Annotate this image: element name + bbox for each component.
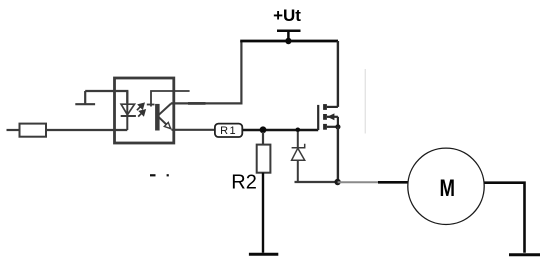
base lead stub [147,91,190,107]
svg-text:+Ut: +Ut [273,6,301,25]
wire collector to +Ut riser [171,41,242,103]
svg-text:M: M [439,174,455,202]
wire to motor gray segment [338,181,378,183]
wire R1 to gate [243,129,318,131]
resistor R2 [257,132,271,253]
light arrows [137,104,145,117]
zener diode D2 [292,132,305,182]
junction source/body [335,124,340,129]
junction motor node [334,179,340,185]
ground below R2 [249,253,278,256]
ground right [509,253,540,256]
wire motor to right ground [485,183,525,253]
wire source down [337,127,339,182]
ground (LED anode return bar) [75,91,95,104]
resistor R-input [20,124,47,137]
motor M1 [408,148,484,224]
svg-text:R1: R1 [220,125,237,137]
svg-text:R2: R2 [231,171,257,193]
artifact faint line [364,69,366,134]
wire collector dark segment [188,102,206,105]
wire drain to rail [337,41,339,107]
optocoupler U1 package [115,78,174,143]
wire zener to source node [295,181,338,183]
resistor R1 [215,124,242,137]
artifact dash below optocoupler [150,174,156,176]
wire input to optocoupler LED [46,129,127,131]
wire to motor black segment [378,181,408,184]
+Ut terminal [277,31,301,41]
junction node zener [296,128,301,133]
MOSFET Q2 [318,104,338,130]
artifact dot below optocoupler [167,174,169,176]
phototransistor Q1 [155,104,171,131]
wire input left [7,129,20,131]
junction dot +Ut [285,38,291,44]
LED D1 (optocoupler emitter diode) [121,91,136,130]
wire LED anode [85,91,127,103]
power rail +Ut [240,40,338,43]
wire emitter to R1 [172,129,216,131]
junction node gate/R2 [260,126,267,133]
